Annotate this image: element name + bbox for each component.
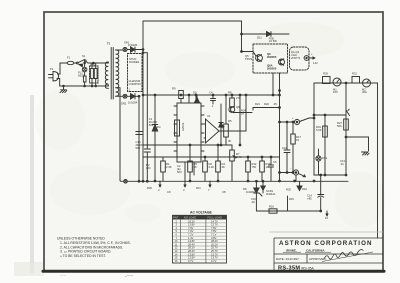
- signature: [324, 250, 364, 260]
- T1 secondary winding: [116, 50, 119, 96]
- svg-text:5K: 5K: [194, 165, 197, 169]
- stud terminal: [123, 94, 127, 98]
- svg-text:1K: 1K: [241, 112, 244, 116]
- resistor R6: [204, 157, 206, 161]
- diode D4: [154, 95, 156, 181]
- wire switch to transformer primary top: [86, 62, 104, 64]
- svg-text:16: 16: [325, 216, 328, 220]
- svg-text:15V: 15V: [333, 90, 338, 94]
- T1 core: [110, 48, 112, 100]
- minus out arrow: [299, 174, 306, 177]
- wire bottom AC bus: [57, 79, 104, 87]
- svg-text:R9: R9: [172, 87, 176, 91]
- pilot lamp PL1: [84, 63, 86, 67]
- emitter drop: [272, 73, 274, 95]
- svg-text:DATE: 4/12/1997: DATE: 4/12/1997: [276, 257, 299, 261]
- chassis ground: [60, 86, 67, 93]
- pot R7: [231, 145, 233, 150]
- svg-text:1. ALL RESISTORS 1/4W, 5%, C.F: 1. ALL RESISTORS 1/4W, 5%, C.F., IN OHMS…: [60, 241, 131, 245]
- drop to pass block: [241, 21, 243, 52]
- svg-text:FULL LOAD: FULL LOAD: [208, 216, 223, 220]
- pins left: [174, 106, 177, 151]
- resistor R4: [217, 145, 219, 161]
- resistor R13: [261, 157, 263, 161]
- output terminal: [304, 56, 309, 61]
- svg-text:CALIFORNIA: CALIFORNIA: [306, 249, 325, 253]
- lower rail: [256, 210, 320, 212]
- svg-text:R5: R5: [228, 119, 232, 123]
- svg-text:UNLESS OTHERWISE NOTED: UNLESS OTHERWISE NOTED: [57, 237, 105, 241]
- svg-text:3K: 3K: [222, 165, 225, 169]
- wire down right: [377, 83, 379, 238]
- svg-text:R31: R31: [352, 72, 357, 76]
- resistor R5: [225, 95, 227, 124]
- svg-text:R15: R15: [289, 197, 294, 201]
- svg-text:0.7V: 0.7V: [188, 259, 194, 263]
- svg-text:10 5W: 10 5W: [269, 39, 277, 43]
- cap C11: [286, 122, 288, 150]
- transistor Q5: [256, 55, 263, 62]
- svg-text:2N3771: 2N3771: [291, 56, 301, 60]
- svg-text:C11: C11: [282, 146, 287, 150]
- svg-text:NO LOAD: NO LOAD: [184, 216, 196, 220]
- svg-text:DS1: DS1: [322, 156, 328, 160]
- svg-text:14V: 14V: [313, 61, 318, 65]
- resistor R28: [83, 76, 86, 82]
- svg-text:.01: .01: [340, 162, 344, 166]
- svg-text:F1: F1: [67, 56, 71, 60]
- collector rail: [242, 33, 267, 35]
- svg-text:Q7: Q7: [221, 125, 225, 129]
- svg-text:C5: C5: [273, 160, 277, 164]
- resistor R27: [344, 119, 349, 130]
- svg-text:2N4441: 2N4441: [266, 192, 276, 196]
- svg-text:R16: R16: [269, 205, 274, 209]
- svg-text:D4: D4: [157, 125, 161, 129]
- svg-text:AC VOLTAGE: AC VOLTAGE: [190, 211, 212, 215]
- svg-text:30A: 30A: [362, 90, 367, 94]
- T1 primary winding: [105, 62, 108, 88]
- svg-text:3. ▭ PRINTED CIRCUIT BOARD.: 3. ▭ PRINTED CIRCUIT BOARD.: [60, 250, 111, 254]
- svg-text:S1: S1: [82, 54, 86, 58]
- svg-text:P1: P1: [50, 67, 54, 71]
- svg-text:1N4002: 1N4002: [246, 190, 256, 194]
- top rail: [143, 20, 242, 22]
- wire: [104, 62, 108, 64]
- rail C: [143, 144, 232, 146]
- svg-text:270: 270: [236, 96, 241, 100]
- bottom leads: [185, 162, 194, 181]
- diode D9: [262, 181, 264, 186]
- resistor R9: [179, 91, 184, 99]
- below bus diode D10: [297, 186, 302, 191]
- varistor: [95, 63, 97, 69]
- svg-text:5.6K: 5.6K: [316, 128, 322, 132]
- + bus vertical: [142, 21, 144, 181]
- error amp triangle: [206, 119, 220, 143]
- dashed chassis components box: [128, 54, 143, 92]
- svg-text:R11: R11: [196, 186, 201, 190]
- svg-text:LM723: LM723: [181, 122, 185, 131]
- node: [93, 62, 95, 64]
- svg-text:50V: 50V: [149, 123, 154, 127]
- svg-text:2.4K: 2.4K: [209, 165, 215, 169]
- svg-text:C4: C4: [209, 91, 213, 95]
- svg-text:1K: 1K: [266, 165, 269, 169]
- svg-text:1N1184: 1N1184: [128, 43, 138, 47]
- switch arrow: [79, 64, 83, 67]
- plug P1: [49, 72, 59, 81]
- wire emitter row: [253, 107, 280, 109]
- transistor Q6: [279, 59, 285, 65]
- meter M2: [363, 79, 371, 87]
- meter switch S2: [346, 109, 350, 115]
- resistor R1: [189, 145, 191, 161]
- top leads: [189, 95, 196, 103]
- svg-text:D5: D5: [193, 91, 197, 95]
- svg-text:DIODES: DIODES: [129, 60, 140, 64]
- node: [63, 85, 65, 87]
- diode D5: [194, 98, 199, 104]
- svg-text:C8: C8: [222, 190, 226, 194]
- svg-text:T1: T1: [107, 42, 111, 46]
- svg-text:750: 750: [252, 165, 257, 169]
- resistor R19: [323, 126, 328, 137]
- header: [173, 215, 227, 219]
- svg-text:R21: R21: [255, 102, 260, 106]
- svg-text:/RS-35A: /RS-35A: [301, 266, 315, 270]
- lamp: [316, 156, 321, 161]
- rail D: [143, 156, 280, 158]
- diode D6: [219, 123, 223, 128]
- node: [84, 85, 86, 87]
- svg-text:C9: C9: [167, 190, 171, 194]
- - post: [280, 172, 294, 174]
- resistor R17: [292, 122, 294, 134]
- svg-text:R22: R22: [264, 102, 269, 106]
- stud terminal: [123, 48, 127, 52]
- svg-text:2. ALL CAPACITORS IN MICROFARA: 2. ALL CAPACITORS IN MICROFARADS.: [60, 245, 123, 249]
- diode D2: [127, 95, 131, 97]
- R3 on left edge: [175, 120, 180, 136]
- fuse F1: [67, 61, 74, 64]
- svg-text:SR2: SR2: [121, 102, 127, 106]
- test point stubs: [159, 181, 161, 187]
- svg-text:COMPON.: COMPON.: [129, 82, 142, 86]
- svg-text:1N1184: 1N1184: [128, 101, 138, 105]
- svg-text:2.4K: 2.4K: [166, 165, 172, 169]
- scan artifact line: [269, 231, 383, 233]
- svg-text:.02: .02: [251, 200, 255, 204]
- svg-text:RS-35M: RS-35M: [278, 266, 300, 272]
- filter capacitor C1: [136, 131, 142, 133]
- svg-text:PNT: PNT: [173, 216, 179, 220]
- meter M1: [333, 78, 341, 86]
- wire to + post: [280, 121, 295, 123]
- svg-text:R25: R25: [323, 72, 328, 76]
- svg-text:R26: R26: [147, 186, 152, 190]
- wire drive line: [224, 130, 246, 132]
- wire: [74, 62, 77, 64]
- svg-text:100: 100: [146, 166, 151, 170]
- pins right: [201, 106, 204, 151]
- wire: [239, 95, 241, 145]
- svg-text:0.7V: 0.7V: [211, 259, 217, 263]
- node: [84, 62, 86, 64]
- switch S1: [76, 62, 78, 64]
- svg-text:50V: 50V: [177, 170, 182, 174]
- svg-text:+85: +85: [307, 197, 312, 201]
- diode D11: [267, 32, 272, 37]
- 0V bus: [127, 180, 348, 182]
- cap C6: [270, 157, 272, 165]
- svg-text:15: 15: [296, 138, 299, 142]
- svg-text:R20: R20: [286, 188, 291, 192]
- chassis ground: [362, 152, 370, 155]
- thermistor: [91, 63, 93, 69]
- svg-text:R8: R8: [228, 91, 232, 95]
- svg-text:50V: 50V: [136, 146, 141, 150]
- resistor R16: [269, 209, 277, 213]
- wire: [234, 112, 252, 114]
- capacitor C14 riser: [320, 198, 322, 212]
- svg-text:50K: 50K: [337, 124, 342, 128]
- svg-text:NE2H: NE2H: [78, 73, 85, 77]
- resistor R8: [231, 95, 233, 98]
- border frame: [44, 12, 383, 272]
- diode D1: [127, 49, 131, 51]
- resistor R2: [162, 157, 164, 161]
- wire to ground: [346, 136, 369, 138]
- base rail: [242, 51, 254, 53]
- svg-text:2N3055: 2N3055: [267, 55, 277, 59]
- scan streak left: [30, 95, 34, 273]
- shunt box: [352, 77, 360, 84]
- svg-text:IRVINE,: IRVINE,: [286, 249, 297, 253]
- secondary bottom lead: [116, 95, 123, 97]
- svg-text:▵ TO BE SELECTED IN TEST.: ▵ TO BE SELECTED IN TEST.: [60, 254, 106, 258]
- resistor R12: [247, 157, 249, 161]
- svg-text:D11: D11: [257, 36, 262, 40]
- svg-text:VR1: VR1: [90, 63, 96, 67]
- smudge bottom: [125, 275, 133, 277]
- terminal: [124, 180, 128, 184]
- meter rail: [314, 82, 378, 84]
- svg-text:2N3055: 2N3055: [267, 67, 277, 71]
- svg-text:2.4K: 2.4K: [236, 155, 242, 159]
- wire plug to fuse: [58, 63, 68, 74]
- frame bottom heavy edge: [43, 270, 384, 273]
- svg-text:U1: U1: [207, 114, 211, 118]
- svg-text:ASTRON CORPORATION: ASTRON CORPORATION: [279, 240, 373, 247]
- test point 16: [326, 211, 328, 216]
- svg-text:TIP29: TIP29: [245, 57, 253, 61]
- capacitor C1B leg: [143, 52, 147, 54]
- wire: [220, 104, 222, 145]
- dashed box thermistor/varistor: [90, 66, 99, 83]
- second bus line: [138, 96, 140, 181]
- + post: [294, 119, 299, 124]
- cap C4: [212, 95, 214, 99]
- shunt box: [323, 77, 331, 84]
- secondary top lead: [116, 49, 123, 51]
- svg-text:D10: D10: [302, 187, 307, 191]
- svg-text:.05: .05: [273, 102, 277, 106]
- center tap lead: [116, 88, 124, 182]
- svg-text:Q8: Q8: [236, 105, 240, 109]
- svg-text:3K: 3K: [228, 139, 231, 143]
- wire + post to meter drop: [300, 118, 314, 122]
- rail B: [143, 94, 280, 96]
- transistor Q8: [229, 107, 235, 113]
